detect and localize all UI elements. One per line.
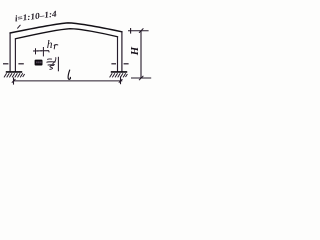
svg-text:h: h <box>47 39 53 51</box>
crane girder block <box>35 60 43 66</box>
height dimension line H <box>140 31 142 78</box>
right column level dash left <box>111 63 116 65</box>
rafter top chord <box>10 23 122 33</box>
slope arrow tick <box>18 25 21 28</box>
annotation squiggle upper dash 1 <box>48 58 52 60</box>
right support base plate <box>111 71 127 73</box>
right column outer flange <box>121 32 123 72</box>
height dim top slash <box>139 28 143 32</box>
right column inner flange <box>117 37 119 72</box>
span dim right slash <box>119 79 123 83</box>
svg-text:H: H <box>129 46 141 56</box>
span dimension line l <box>14 80 123 82</box>
knee dim arrow left <box>36 50 38 52</box>
height dim bottom slash <box>139 76 143 80</box>
left column level dash right <box>18 63 23 65</box>
annotation squiggle upper dash 2 <box>47 61 55 63</box>
right column level dash right <box>124 63 129 65</box>
span dim left slash <box>12 79 16 83</box>
left column inner flange <box>14 39 16 72</box>
span dim left tick <box>13 77 15 84</box>
knee dim tick left <box>35 48 37 54</box>
height dim top extension tick <box>130 28 132 34</box>
annotation squiggle upper hook <box>53 58 56 64</box>
annotation squiggle lower S-curve <box>50 65 54 69</box>
left column outer flange <box>9 33 11 72</box>
left column level dash left <box>3 63 8 65</box>
span label script l <box>68 70 70 79</box>
height dim bottom extension line <box>131 77 151 79</box>
crane girder block dots <box>36 61 41 63</box>
left support hatching <box>4 73 25 77</box>
span dim right tick <box>120 76 122 84</box>
annotation vertical leader line <box>57 57 59 72</box>
knee dim arrow right <box>41 50 43 52</box>
slope label "i=1:10-1:4" <box>14 8 58 23</box>
height dim top extension line <box>128 30 149 32</box>
rafter bottom chord <box>15 29 117 39</box>
left support base plate <box>6 71 22 73</box>
knee small dimension line <box>33 51 49 53</box>
annotation squiggle lower dash <box>48 64 54 66</box>
knee dim tick right <box>42 47 44 56</box>
right support hatching <box>110 73 128 77</box>
background <box>0 0 152 98</box>
